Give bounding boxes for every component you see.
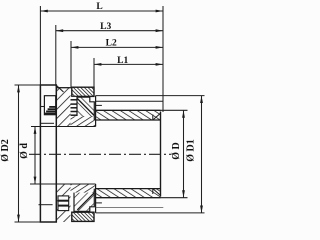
dimension L1 (94, 63, 163, 65)
extension line L2 left (70, 41, 72, 88)
collar line bottom (96, 207, 164, 209)
dimension D1 (201, 96, 203, 213)
svg-text:L1: L1 (117, 56, 128, 66)
sleeve bore top edge (96, 119, 161, 121)
bore line bottom (30, 183, 96, 185)
dimension L3 (56, 30, 163, 32)
cone taper diagonal bottom (77, 193, 94, 210)
nut outline bottom (72, 212, 94, 221)
hatch sleeve band bottom (96, 189, 161, 198)
svg-text:L3: L3 (100, 22, 111, 32)
hatch nut bottom (72, 212, 94, 221)
nut outline top (72, 87, 94, 96)
shoulder top edge (56, 87, 72, 89)
extension D2 bottom (15, 221, 41, 223)
bolt axis tick bottom (39, 204, 53, 206)
bore chamfer right top (153, 113, 161, 120)
hatch hub bottom (56, 184, 70, 222)
extension D2 top (15, 84, 41, 86)
extension D1 bottom (96, 212, 205, 214)
dimension d (34, 127, 36, 185)
dimension L2 (71, 46, 163, 48)
sleeve junction vertical top (95, 96, 97, 127)
hatch band under cone bottom (71, 184, 96, 193)
sleeve end face (160, 112, 162, 197)
svg-text:Ø D1: Ø D1 (186, 139, 197, 162)
white column bottom (71, 193, 74, 212)
sleeve outer top edge (96, 109, 161, 111)
bolt thread wedge top (45, 107, 56, 114)
bolt bars bottom (58, 200, 69, 202)
extension D1 top (96, 95, 205, 97)
extension D top (161, 109, 188, 111)
extension line right (162, 6, 164, 112)
bolt hole top (44, 96, 55, 115)
hatch nut top (72, 87, 94, 96)
step line bottom (96, 202, 102, 204)
hatch shoulder top (56, 88, 70, 127)
ladder column top (71, 97, 77, 116)
hatch band under cone top (71, 116, 96, 127)
flange outline (40, 85, 56, 222)
svg-text:Ø D: Ø D (171, 142, 182, 160)
bore chamfer right bottom (153, 189, 161, 196)
extension line L1 left (93, 58, 95, 88)
dimension L (40, 10, 163, 12)
cone outline bottom (74, 189, 94, 212)
extension line L3 left (55, 25, 57, 86)
dimension D2 (18, 85, 20, 222)
hatch cone bottom (74, 193, 94, 212)
hatch sleeve band top (96, 110, 161, 120)
cone outline top (77, 97, 94, 120)
svg-text:Ø D2: Ø D2 (0, 139, 11, 162)
bore line top (31, 126, 96, 128)
svg-text:Ø d: Ø d (19, 143, 30, 159)
sleeve junction vertical bottom (95, 184, 97, 213)
hatch cone top (77, 97, 94, 116)
extension D bottom (161, 197, 188, 199)
keyway line top (41, 122, 54, 124)
extension line L left (39, 6, 41, 85)
svg-text:L: L (96, 2, 102, 12)
step line top (96, 104, 102, 106)
cone taper diagonal top (77, 99, 94, 116)
sleeve outer bottom edge (96, 197, 161, 199)
collar line top (96, 100, 164, 102)
sleeve bore bottom edge (96, 188, 161, 190)
bolt axis tick top (41, 106, 45, 108)
dimension D (183, 110, 185, 197)
centerline (29, 153, 172, 155)
bolt hole bottom (58, 196, 69, 211)
svg-text:L2: L2 (106, 39, 117, 49)
shoulder chamfer (57, 86, 64, 93)
